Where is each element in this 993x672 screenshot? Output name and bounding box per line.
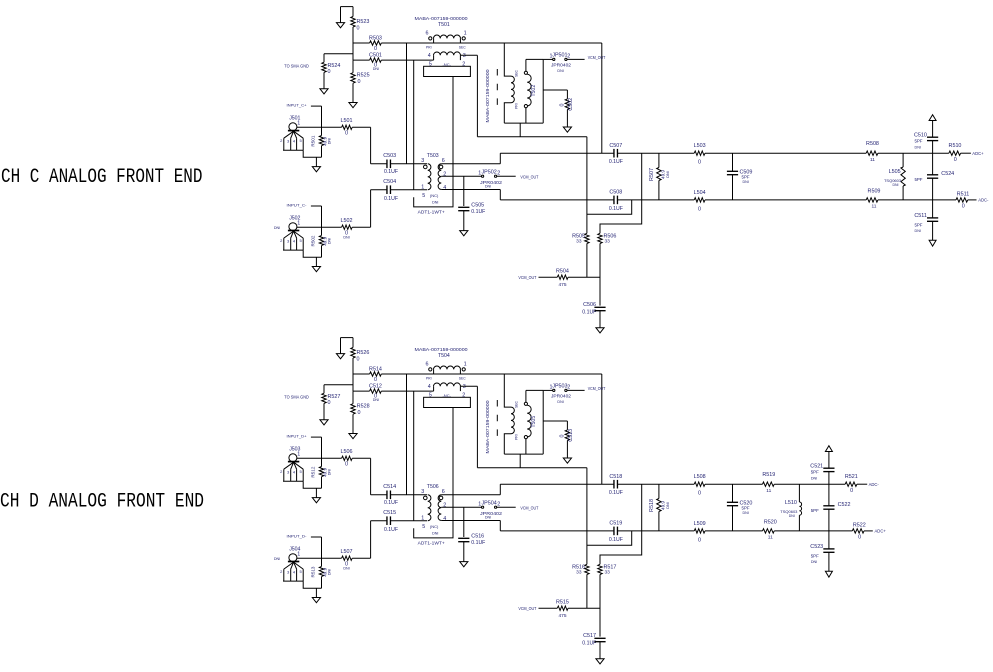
svg-text:L509: L509 xyxy=(694,521,706,527)
svg-text:0.1UF: 0.1UF xyxy=(582,641,596,647)
svg-text:R509: R509 xyxy=(868,188,881,194)
inductor L502 xyxy=(297,226,342,228)
wire pin2 xyxy=(441,506,481,508)
svg-text:SEC: SEC xyxy=(514,69,518,77)
svg-text:DNI: DNI xyxy=(666,171,670,177)
svg-text:DNI: DNI xyxy=(485,184,491,188)
ground xyxy=(352,83,354,102)
svg-text:0.1UF: 0.1UF xyxy=(609,206,623,212)
wire xyxy=(600,153,642,233)
svg-text:1: 1 xyxy=(421,516,424,522)
resistor R509 xyxy=(866,198,878,202)
svg-text:R524: R524 xyxy=(328,63,341,69)
wire xyxy=(599,575,601,637)
capacitor C522 xyxy=(828,484,830,506)
svg-text:ADT1-1WT+: ADT1-1WT+ xyxy=(418,210,445,215)
power arrow xyxy=(932,221,934,240)
wire xyxy=(587,531,632,545)
svg-text:0: 0 xyxy=(357,25,360,31)
svg-text:C517: C517 xyxy=(583,633,596,639)
jumper JP502 xyxy=(482,175,484,177)
resistor R517 xyxy=(598,564,602,574)
capacitor C502 xyxy=(543,89,567,91)
svg-text:4: 4 xyxy=(443,516,446,522)
inductor L503 xyxy=(694,151,705,155)
svg-text:T504: T504 xyxy=(438,353,450,359)
svg-text:49.9: 49.9 xyxy=(661,501,666,510)
resistor R503 xyxy=(353,42,370,44)
svg-text:R528: R528 xyxy=(357,403,370,409)
resistor R528 xyxy=(352,391,354,404)
svg-text:475: 475 xyxy=(558,282,566,288)
svg-text:49.9: 49.9 xyxy=(322,467,327,476)
wire xyxy=(601,43,603,153)
svg-text:TO SMA GND: TO SMA GND xyxy=(284,395,309,400)
svg-text:DNI: DNI xyxy=(485,515,491,519)
svg-text:JPR0402: JPR0402 xyxy=(551,62,572,67)
wire xyxy=(600,484,642,564)
svg-text:C521: C521 xyxy=(810,463,823,469)
svg-text:PRI: PRI xyxy=(514,434,518,440)
wire xyxy=(519,454,521,468)
capacitor C511 xyxy=(932,200,934,218)
svg-text:C510: C510 xyxy=(914,132,927,138)
svg-text:1: 1 xyxy=(297,121,300,127)
svg-text:DNI: DNI xyxy=(432,532,438,536)
svg-text:T502: T502 xyxy=(531,85,537,97)
svg-text:R525: R525 xyxy=(357,72,370,78)
power arrow xyxy=(825,446,832,452)
svg-text:T501: T501 xyxy=(438,22,450,28)
svg-text:R517: R517 xyxy=(604,565,617,571)
svg-text:DNI: DNI xyxy=(373,398,379,402)
svg-text:4: 4 xyxy=(428,384,431,390)
svg-text:0.1UF: 0.1UF xyxy=(384,500,398,506)
svg-text:1: 1 xyxy=(464,362,467,368)
svg-text:33: 33 xyxy=(576,239,582,245)
wire xyxy=(733,483,763,485)
wire pin4 xyxy=(441,189,500,191)
svg-text:3: 3 xyxy=(421,158,424,164)
svg-text:SEC: SEC xyxy=(514,400,518,408)
svg-text:2: 2 xyxy=(567,385,570,391)
svg-text:R519: R519 xyxy=(762,472,775,478)
svg-text:L507: L507 xyxy=(341,549,353,555)
svg-text:5PF: 5PF xyxy=(811,508,819,513)
transformer T505 xyxy=(496,400,498,443)
svg-text:R526: R526 xyxy=(357,350,370,356)
svg-text:C504: C504 xyxy=(383,179,396,185)
svg-text:JP504: JP504 xyxy=(481,501,496,507)
svg-text:JP503: JP503 xyxy=(552,384,567,390)
svg-text:JPR0402: JPR0402 xyxy=(480,511,503,516)
ground xyxy=(352,414,354,433)
resistor R523 xyxy=(352,7,354,17)
svg-text:0: 0 xyxy=(698,160,701,166)
resistor R524 xyxy=(323,54,325,62)
inductor L510 xyxy=(798,484,800,502)
svg-text:DNI: DNI xyxy=(343,566,349,570)
svg-text:T503: T503 xyxy=(427,153,439,159)
resistor R505 xyxy=(585,233,589,243)
svg-text:0.1UF: 0.1UF xyxy=(609,537,623,543)
inductor L505 xyxy=(902,153,904,167)
svg-text:INPUT_C-: INPUT_C- xyxy=(287,203,308,208)
svg-text:C503: C503 xyxy=(383,153,396,159)
ground xyxy=(566,110,568,128)
svg-text:R513: R513 xyxy=(311,566,316,577)
svg-text:L510: L510 xyxy=(785,500,797,506)
svg-text:DNI: DNI xyxy=(328,238,332,244)
ground xyxy=(323,72,325,88)
svg-text:DNI: DNI xyxy=(557,69,563,73)
capacitor C501 xyxy=(353,59,370,61)
capacitor C524 xyxy=(932,153,934,175)
svg-text:PRI: PRI xyxy=(426,376,432,380)
inductor L509 xyxy=(694,529,705,533)
svg-text:DNI: DNI xyxy=(915,229,921,233)
svg-text:5: 5 xyxy=(422,193,425,199)
svg-text:SEC: SEC xyxy=(459,45,467,49)
svg-text:INPUT_D-: INPUT_D- xyxy=(287,534,308,539)
svg-text:C524: C524 xyxy=(941,171,954,177)
svg-text:4: 4 xyxy=(428,53,431,59)
transformer T502 xyxy=(496,69,498,112)
resistor R513 xyxy=(321,558,323,566)
capacitor C514 xyxy=(371,494,387,496)
svg-text:INPUT_D+: INPUT_D+ xyxy=(287,434,308,439)
svg-text:VCM_OUT: VCM_OUT xyxy=(588,386,606,392)
svg-text:6: 6 xyxy=(426,31,429,37)
wire xyxy=(519,123,521,137)
svg-text:11: 11 xyxy=(766,488,771,494)
svg-text:DNI: DNI xyxy=(743,180,749,184)
svg-text:L508: L508 xyxy=(694,474,706,480)
svg-text:T506: T506 xyxy=(427,484,439,490)
wire xyxy=(352,27,354,60)
ground xyxy=(463,211,465,231)
svg-text:MABA-007159-000000: MABA-007159-000000 xyxy=(485,400,490,454)
resistor R507 xyxy=(658,153,660,167)
svg-text:33: 33 xyxy=(605,570,611,576)
svg-text:DNI: DNI xyxy=(915,145,921,149)
wire xyxy=(733,530,763,532)
svg-text:R502: R502 xyxy=(311,235,316,246)
resistor R521 xyxy=(845,482,857,486)
resistor R511 xyxy=(956,198,968,202)
svg-text:6: 6 xyxy=(442,489,445,495)
svg-text:0.1UF: 0.1UF xyxy=(384,196,398,202)
wire xyxy=(406,43,408,164)
ground xyxy=(463,542,465,562)
wire xyxy=(601,374,603,484)
wire xyxy=(413,60,415,190)
svg-text:0: 0 xyxy=(850,488,853,494)
resistor R518 xyxy=(658,484,660,498)
power arrow xyxy=(828,552,830,571)
svg-text:DNI: DNI xyxy=(892,183,898,187)
svg-text:VCM_OUT: VCM_OUT xyxy=(518,275,536,281)
wire xyxy=(352,358,354,391)
wire xyxy=(370,127,372,164)
resistor R504 xyxy=(539,276,558,278)
wire center tap of T501 xyxy=(414,77,453,207)
svg-text:C515: C515 xyxy=(383,510,396,516)
resistor R525 xyxy=(352,60,354,73)
capacitor C521 xyxy=(823,468,834,471)
wire xyxy=(413,391,415,521)
svg-text:R503: R503 xyxy=(369,36,382,42)
svg-text:R508: R508 xyxy=(866,141,879,147)
svg-text:C508: C508 xyxy=(609,190,622,196)
capacitor C518 xyxy=(500,483,614,485)
wire pin2 xyxy=(441,175,481,177)
svg-text:DNI: DNI xyxy=(328,469,332,475)
svg-text:0: 0 xyxy=(374,46,377,52)
svg-text:L501: L501 xyxy=(341,118,353,124)
wire xyxy=(370,458,372,495)
svg-text:ADC+: ADC+ xyxy=(875,529,887,534)
svg-text:(NC): (NC) xyxy=(430,193,439,198)
resistor R510 xyxy=(949,151,961,155)
capacitor C516 xyxy=(463,507,465,537)
svg-text:VCM_OUT: VCM_OUT xyxy=(520,174,538,180)
svg-text:0: 0 xyxy=(358,79,361,85)
svg-text:33: 33 xyxy=(605,239,611,245)
svg-text:33: 33 xyxy=(576,570,582,576)
svg-text:R505: R505 xyxy=(572,234,585,240)
svg-text:R510: R510 xyxy=(949,143,962,149)
ground xyxy=(315,588,317,597)
svg-text:ADC+: ADC+ xyxy=(972,151,984,156)
svg-text:475: 475 xyxy=(558,613,566,619)
svg-text:C514: C514 xyxy=(383,484,396,490)
svg-text:L503: L503 xyxy=(694,143,706,149)
capacitor C510 xyxy=(927,137,938,140)
ground xyxy=(315,157,317,166)
svg-text:JP501: JP501 xyxy=(552,53,567,59)
ground xyxy=(315,488,317,497)
ground xyxy=(599,642,601,659)
svg-text:0: 0 xyxy=(374,377,377,383)
inductor L506 xyxy=(297,457,342,459)
inductor L504 xyxy=(694,198,705,202)
svg-text:CH C ANALOG FRONT END: CH C ANALOG FRONT END xyxy=(1,166,203,189)
svg-text:DNI: DNI xyxy=(343,235,349,239)
wire pin6 xyxy=(441,163,500,165)
svg-text:C513: C513 xyxy=(568,429,574,442)
resistor R527 xyxy=(323,385,325,393)
svg-text:C507: C507 xyxy=(609,143,622,149)
svg-text:DNI: DNI xyxy=(789,514,795,518)
wire xyxy=(586,244,588,278)
power arrow xyxy=(929,115,936,121)
wire xyxy=(733,152,867,154)
svg-text:49.9: 49.9 xyxy=(322,136,327,145)
svg-text:4: 4 xyxy=(443,185,446,191)
svg-text:R511: R511 xyxy=(957,191,970,197)
svg-text:DNI: DNI xyxy=(274,557,280,561)
svg-text:C512: C512 xyxy=(369,384,382,390)
svg-text:C506: C506 xyxy=(583,302,596,308)
svg-text:5PF: 5PF xyxy=(811,470,819,475)
svg-text:49.9: 49.9 xyxy=(322,567,327,576)
svg-text:11: 11 xyxy=(872,204,877,210)
svg-text:0: 0 xyxy=(345,462,348,468)
svg-text:SEC: SEC xyxy=(459,376,467,380)
wire pin6 xyxy=(441,494,500,496)
svg-text:2: 2 xyxy=(567,54,570,60)
resistor R520 xyxy=(763,529,775,533)
svg-text:JPR0402: JPR0402 xyxy=(480,180,503,185)
svg-text:C518: C518 xyxy=(609,474,622,480)
inductor L507 xyxy=(297,557,342,559)
resistor R522 xyxy=(852,529,864,533)
wire xyxy=(586,137,588,234)
svg-text:C501: C501 xyxy=(369,53,382,59)
resistor R506 xyxy=(598,233,602,243)
svg-text:R527: R527 xyxy=(328,394,341,400)
wire xyxy=(324,53,353,55)
svg-text:R506: R506 xyxy=(604,234,617,240)
svg-text:0.1UF: 0.1UF xyxy=(384,169,398,175)
svg-text:(NC): (NC) xyxy=(430,524,439,529)
svg-text:1: 1 xyxy=(421,185,424,191)
svg-text:5PF: 5PF xyxy=(914,139,922,144)
wire xyxy=(586,575,588,609)
resistor R516 xyxy=(585,564,589,574)
svg-text:0: 0 xyxy=(559,104,565,107)
svg-text:0: 0 xyxy=(328,69,331,75)
svg-text:0.1UF: 0.1UF xyxy=(384,527,398,533)
capacitor C509 xyxy=(732,153,734,171)
jumper JP504 xyxy=(482,506,484,508)
ground xyxy=(315,257,317,266)
svg-text:0: 0 xyxy=(698,206,701,212)
svg-text:MABA-007159-000000: MABA-007159-000000 xyxy=(415,16,469,21)
wire pin4 xyxy=(441,520,500,522)
capacitor C512 xyxy=(353,390,370,392)
svg-text:DNI: DNI xyxy=(328,138,332,144)
capacitor C507 xyxy=(500,152,614,154)
svg-text:DNI: DNI xyxy=(811,560,817,564)
ground xyxy=(341,6,354,8)
resistor R501 xyxy=(321,127,323,135)
svg-text:R522: R522 xyxy=(853,522,866,528)
svg-text:C505: C505 xyxy=(471,203,484,209)
resistor R515 xyxy=(539,607,558,609)
svg-text:L505: L505 xyxy=(889,169,901,175)
wire pin3 of T504 xyxy=(460,385,477,387)
svg-text:0: 0 xyxy=(357,356,360,362)
svg-text:0: 0 xyxy=(954,157,957,163)
wire pin3 of T501 xyxy=(460,54,477,56)
capacitor C520 xyxy=(732,484,734,502)
svg-text:VCM_OUT: VCM_OUT xyxy=(520,505,538,511)
svg-text:0: 0 xyxy=(345,131,348,137)
svg-text:C516: C516 xyxy=(471,534,484,540)
svg-text:5PF: 5PF xyxy=(742,505,750,510)
jumper JP501 xyxy=(543,58,553,60)
ground xyxy=(341,337,354,339)
svg-text:0.1UF: 0.1UF xyxy=(471,209,485,215)
wire xyxy=(586,468,588,565)
inductor L508 xyxy=(694,482,705,486)
svg-text:TO SMA GND: TO SMA GND xyxy=(284,64,309,69)
svg-text:1: 1 xyxy=(297,221,300,227)
svg-text:R515: R515 xyxy=(556,599,569,605)
capacitor C504 xyxy=(371,189,387,191)
svg-text:L502: L502 xyxy=(341,218,353,224)
svg-text:C511: C511 xyxy=(914,213,927,219)
svg-text:1: 1 xyxy=(297,452,300,458)
wire xyxy=(370,190,372,228)
svg-text:0: 0 xyxy=(698,537,701,543)
svg-text:R512: R512 xyxy=(311,466,316,477)
wire xyxy=(599,244,601,306)
svg-text:INPUT_C+: INPUT_C+ xyxy=(287,103,308,108)
svg-text:0: 0 xyxy=(858,535,861,541)
svg-text:ADT1-1WT+: ADT1-1WT+ xyxy=(418,541,445,546)
capacitor C505 xyxy=(463,176,465,206)
wire xyxy=(406,374,408,495)
svg-text:T505: T505 xyxy=(531,416,537,428)
svg-text:0.1UF: 0.1UF xyxy=(609,490,623,496)
jumper JP503 xyxy=(543,389,553,391)
resistor R514 xyxy=(353,373,370,375)
wire xyxy=(370,521,372,559)
svg-text:5: 5 xyxy=(422,524,425,530)
svg-text:5PF: 5PF xyxy=(914,177,922,182)
svg-text:R523: R523 xyxy=(357,19,370,25)
svg-text:R520: R520 xyxy=(764,519,777,525)
capacitor C506 xyxy=(594,307,605,310)
svg-text:DNI: DNI xyxy=(328,569,332,575)
resistor R502 xyxy=(321,227,323,235)
svg-text:PRI: PRI xyxy=(514,103,518,109)
wire xyxy=(324,384,353,386)
svg-text:0: 0 xyxy=(698,491,701,497)
wire xyxy=(587,200,632,214)
resistor R512 xyxy=(321,458,323,466)
resistor R508 xyxy=(866,151,878,155)
svg-text:5PF: 5PF xyxy=(811,553,819,558)
svg-text:JP502: JP502 xyxy=(481,170,496,176)
svg-text:11: 11 xyxy=(768,535,773,541)
capacitor C523 xyxy=(828,531,830,549)
svg-text:C523: C523 xyxy=(810,544,823,550)
svg-text:1: 1 xyxy=(464,31,467,37)
svg-text:0.1UF: 0.1UF xyxy=(582,310,596,316)
ground xyxy=(599,311,601,328)
inductor L501 xyxy=(297,126,342,128)
capacitor C519 xyxy=(500,530,614,532)
svg-text:R514: R514 xyxy=(369,367,382,373)
svg-text:49.9: 49.9 xyxy=(322,236,327,245)
svg-text:VCM_OUT: VCM_OUT xyxy=(518,606,536,612)
svg-text:1: 1 xyxy=(297,552,300,558)
svg-text:R518: R518 xyxy=(649,499,655,512)
svg-text:11: 11 xyxy=(870,157,875,163)
svg-text:49.9: 49.9 xyxy=(661,170,666,179)
svg-text:C519: C519 xyxy=(609,521,622,527)
svg-text:3: 3 xyxy=(421,489,424,495)
wire xyxy=(733,199,867,201)
capacitor C503 xyxy=(371,163,387,165)
ground xyxy=(323,403,325,419)
svg-text:R507: R507 xyxy=(649,168,655,181)
svg-text:0: 0 xyxy=(962,204,965,210)
